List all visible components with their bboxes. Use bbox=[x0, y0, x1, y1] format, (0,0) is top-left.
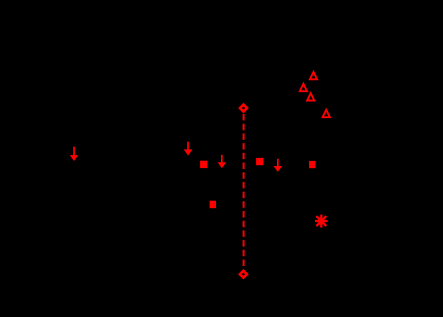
down arrow 1 bbox=[70, 147, 79, 161]
filled square marker 4 bbox=[210, 201, 216, 209]
filled square marker 3 bbox=[309, 161, 315, 168]
filled square marker 1 bbox=[200, 161, 207, 168]
open diamond marker top bbox=[240, 105, 247, 112]
down arrow 2 bbox=[184, 142, 193, 156]
filled square marker 2 bbox=[256, 158, 263, 165]
open triangle marker 3 bbox=[307, 93, 314, 100]
open triangle marker 2 bbox=[300, 84, 307, 91]
open triangle marker 4 bbox=[323, 110, 330, 117]
asterisk marker bbox=[315, 215, 328, 228]
down arrow 3 bbox=[218, 155, 227, 168]
down arrow 4 bbox=[274, 159, 283, 172]
open diamond marker bottom bbox=[240, 271, 247, 278]
open triangle marker 1 bbox=[310, 72, 317, 79]
dashed vertical line bbox=[243, 114, 245, 267]
